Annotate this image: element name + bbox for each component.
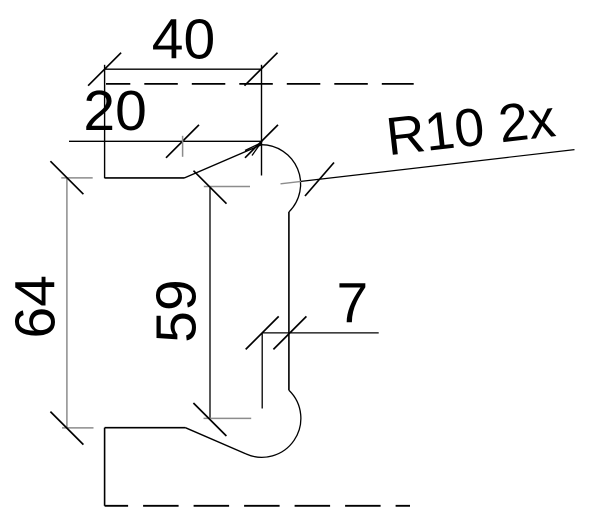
extension line left (40) / profile left upper vertical bbox=[104, 65, 106, 178]
R10 leader tick bbox=[305, 163, 334, 197]
dim 64 top tick bbox=[50, 161, 83, 194]
dim 7 left tick bbox=[246, 316, 279, 349]
dim 64 line (gray) bbox=[66, 178, 68, 428]
dim 59 text (rotated) bbox=[145, 279, 209, 342]
dim 59 bottom ext (gray) bbox=[204, 417, 252, 419]
R10 leader line bbox=[281, 181, 302, 183]
dim 20 extension stub (gray) bbox=[182, 136, 184, 157]
dim 64 text (rotated) bbox=[4, 275, 68, 338]
top hidden (dashed) line bbox=[106, 83, 414, 85]
dim 59 top tick bbox=[194, 171, 227, 204]
profile bottom-left vertical edge bbox=[104, 428, 106, 506]
profile top-left horizontal edge bbox=[105, 177, 185, 179]
profile bottom horizontal edge bbox=[105, 427, 186, 429]
dim 20 line bbox=[69, 140, 262, 142]
profile bottom fillet arc R10 bbox=[246, 391, 301, 458]
R10 2x text bbox=[383, 89, 558, 167]
profile top fillet arc R10 bbox=[261, 145, 300, 212]
profile top diagonal edge bbox=[185, 145, 262, 178]
svg-text:40: 40 bbox=[152, 8, 215, 72]
profile bottom diagonal edge bbox=[185, 428, 246, 454]
svg-text:64: 64 bbox=[4, 275, 68, 338]
dim 64 top ext (gray) bbox=[61, 177, 92, 179]
svg-text:20: 20 bbox=[83, 79, 146, 143]
dim 7 right tick bbox=[273, 316, 306, 349]
dim 59 line bbox=[209, 187, 211, 420]
svg-text:7: 7 bbox=[337, 272, 369, 336]
dim 20 right tick bbox=[245, 125, 278, 158]
dim 64 bottom ext (gray) bbox=[62, 427, 94, 429]
dim 59 bottom tick bbox=[193, 403, 226, 436]
extension line right (40/20) bbox=[261, 65, 263, 176]
dim 59 top ext (gray) bbox=[204, 186, 250, 188]
bottom hidden (dashed) line bbox=[105, 505, 410, 507]
profile right vertical edge bbox=[288, 212, 290, 391]
dim 20 left tick bbox=[166, 125, 199, 158]
dim 7 line bbox=[262, 332, 379, 334]
dim 40 right tick bbox=[245, 53, 278, 86]
dim 40 left tick bbox=[88, 53, 121, 86]
svg-text:59: 59 bbox=[145, 279, 209, 342]
dim 40 line bbox=[104, 68, 261, 70]
dim 7 left extension (down) bbox=[261, 333, 263, 409]
dim 64 bottom tick bbox=[50, 412, 83, 445]
R10 leader arrow shaft (diagonal) + arrowhead bbox=[245, 143, 261, 156]
